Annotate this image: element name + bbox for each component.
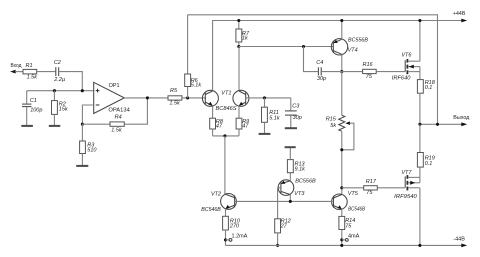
svg-text:2.2µ: 2.2µ	[53, 77, 65, 83]
junction	[436, 123, 439, 126]
svg-text:1k: 1k	[242, 36, 248, 42]
junction R7 top	[237, 19, 240, 22]
svg-text:75: 75	[366, 74, 373, 80]
junction R12 bottom	[276, 244, 279, 247]
junction	[340, 19, 343, 22]
resistor R2 15k	[52, 91, 68, 126]
resistor R8 47	[210, 118, 224, 136]
capacitor C4 30p	[304, 47, 342, 83]
junction wiper	[340, 148, 343, 151]
svg-text:VT7: VT7	[401, 170, 412, 176]
svg-text:100p: 100p	[30, 107, 42, 113]
svg-text:R5: R5	[170, 88, 178, 94]
mosfet VT7 IRF9540	[394, 170, 420, 200]
svg-text:75: 75	[345, 224, 352, 230]
junction R7 bottom	[237, 45, 240, 48]
junction R17 branch	[340, 186, 343, 189]
ground	[285, 127, 297, 129]
wire VT6 drain to rail	[419, 21, 421, 62]
svg-text:VT1: VT1	[221, 91, 231, 97]
svg-text:R1: R1	[26, 63, 33, 69]
wire R1 to C2	[37, 71, 56, 73]
svg-text:IRF640: IRF640	[392, 76, 412, 82]
resistor R13 9.1k	[287, 148, 305, 173]
transistor VT4 BC556B	[331, 37, 368, 55]
svg-text:VT4: VT4	[348, 47, 358, 53]
svg-text:9.1k: 9.1k	[295, 166, 306, 172]
mosfet VT6 IRF640	[392, 53, 420, 82]
resistor R19 0.1	[417, 124, 434, 177]
resistor R12 27	[275, 219, 291, 246]
transistor VT5 BC546B	[332, 191, 366, 213]
node plus-line	[27, 90, 94, 92]
junction	[340, 244, 343, 247]
svg-text:0.1: 0.1	[425, 161, 433, 167]
svg-text:15k: 15k	[59, 107, 68, 113]
capacitor C2 2.2u	[53, 60, 65, 83]
junction	[223, 134, 226, 137]
resistor R11 5.1k	[262, 98, 280, 133]
svg-text:47: 47	[216, 124, 223, 130]
test point 1.2mA	[224, 238, 227, 241]
junction	[53, 89, 56, 92]
ground	[259, 133, 271, 135]
wire emitters join	[213, 135, 239, 137]
junction	[186, 96, 189, 99]
junction C4/VT4 base	[302, 45, 305, 48]
wire VT5 emitter to R14	[341, 209, 343, 216]
svg-text:C1: C1	[30, 98, 37, 104]
svg-text:OPA134: OPA134	[108, 108, 129, 114]
svg-text:VT2: VT2	[211, 191, 221, 197]
wire VT1 right collector	[238, 47, 240, 91]
transistor VT3 BC556B	[278, 179, 316, 197]
svg-text:C2: C2	[54, 60, 61, 66]
resistor R9 47	[236, 118, 249, 136]
junction VAS node	[340, 70, 343, 73]
wire minus input	[82, 105, 93, 124]
ground	[76, 165, 88, 167]
junction	[146, 96, 149, 99]
svg-text:1.5k: 1.5k	[169, 100, 180, 106]
svg-text:VT3: VT3	[294, 191, 305, 197]
svg-text:R17: R17	[366, 179, 377, 185]
resistor R16 75	[342, 62, 405, 80]
wire VT4 collector down	[341, 54, 343, 71]
resistor R14 75	[339, 216, 355, 245]
wire VT3 collector	[289, 195, 291, 202]
wire VT2 emitter	[225, 209, 227, 217]
wire output line	[420, 123, 462, 125]
wire VT2 base line to VT5 base	[235, 200, 334, 202]
resistor R17 75	[342, 179, 405, 196]
junction	[418, 19, 421, 22]
svg-text:R4: R4	[115, 115, 122, 121]
wire bootstrap R6 top to output	[188, 15, 438, 125]
resistor R4 1.5k feedback	[82, 98, 147, 134]
svg-text:5.1k: 5.1k	[269, 115, 280, 121]
svg-text:5k: 5k	[330, 123, 336, 129]
svg-text:OP1: OP1	[109, 83, 120, 89]
wire VT3 emitter to R13	[289, 173, 291, 181]
wire op-amp output	[124, 97, 168, 99]
resistor R18 0.1	[417, 72, 435, 125]
junction	[289, 200, 292, 203]
wire VT3 base to R12	[278, 188, 281, 219]
svg-text:+44B: +44B	[453, 11, 466, 17]
resistor R1 1.5k	[23, 63, 37, 81]
svg-text:0.1: 0.1	[425, 85, 433, 91]
output arrow	[461, 122, 467, 126]
resistor R5 1.5k	[168, 88, 182, 107]
test point 4mA	[340, 238, 343, 241]
svg-text:BC556B: BC556B	[295, 179, 316, 185]
capacitor C1 100p	[22, 91, 42, 126]
resistor R10 270	[223, 216, 241, 245]
wire VT4 emitter to rail	[341, 21, 343, 40]
svg-text:1.5k: 1.5k	[27, 74, 38, 80]
svg-text:C3: C3	[292, 103, 300, 109]
junction	[81, 123, 84, 126]
svg-text:R16: R16	[363, 62, 374, 68]
resistor R3 510	[80, 124, 98, 165]
transistor VT1 BC846S dual	[202, 90, 249, 118]
svg-text:5.1k: 5.1k	[191, 83, 202, 89]
svg-text:BC556B: BC556B	[348, 37, 368, 43]
wire down to VT2 collector	[224, 136, 226, 194]
wire VT1 right base	[246, 97, 291, 99]
ground	[49, 125, 61, 127]
ground above R13	[285, 146, 296, 148]
junction	[418, 244, 421, 247]
svg-text:R15: R15	[326, 116, 337, 122]
capacitor C3 30p	[285, 98, 302, 128]
svg-text:1.5k: 1.5k	[111, 128, 122, 134]
svg-text:BC546B: BC546B	[348, 207, 365, 213]
svg-text:VT6: VT6	[401, 53, 412, 59]
wire C2 to +input node	[59, 72, 82, 91]
svg-text:-44B: -44B	[453, 236, 465, 242]
svg-text:75: 75	[366, 190, 373, 196]
wire VT7 drain to -44 rail	[419, 188, 421, 246]
junction	[418, 123, 421, 126]
junction	[81, 89, 84, 92]
svg-text:VT5: VT5	[348, 191, 359, 197]
wire R7 bottom to VT4 base	[239, 46, 333, 48]
op-amp OP1 OPA134	[94, 82, 130, 113]
power +44B arrow	[461, 19, 467, 23]
trimmer R15 5k	[326, 72, 354, 195]
wire -44V rail	[226, 244, 462, 246]
svg-text:47: 47	[242, 124, 249, 130]
svg-text:270: 270	[229, 224, 240, 230]
wire R5 to VT1 base	[182, 97, 205, 99]
svg-text:BC846S: BC846S	[216, 106, 237, 112]
svg-text:C4: C4	[316, 60, 323, 66]
power -44B arrow	[461, 244, 467, 248]
junction VT1 right base node	[263, 96, 266, 99]
svg-text:BC546B: BC546B	[201, 207, 221, 213]
resistor R7 1k	[236, 21, 250, 47]
node input: Вход terminal arrow	[10, 63, 23, 74]
ground	[21, 125, 33, 127]
svg-text:IRF9540: IRF9540	[394, 194, 418, 200]
wire +44V rail	[213, 21, 462, 91]
svg-text:Вход: Вход	[11, 63, 23, 69]
svg-text:30p: 30p	[293, 115, 302, 121]
svg-text:1.2mA: 1.2mA	[232, 233, 248, 239]
transistor VT2 BC546B	[201, 191, 236, 213]
svg-text:Выход: Выход	[453, 115, 470, 121]
svg-text:4mA: 4mA	[348, 233, 360, 239]
svg-text:27: 27	[280, 224, 288, 230]
svg-text:30p: 30p	[317, 76, 326, 82]
svg-text:510: 510	[87, 148, 97, 154]
resistor R6 5.1k	[185, 15, 202, 98]
